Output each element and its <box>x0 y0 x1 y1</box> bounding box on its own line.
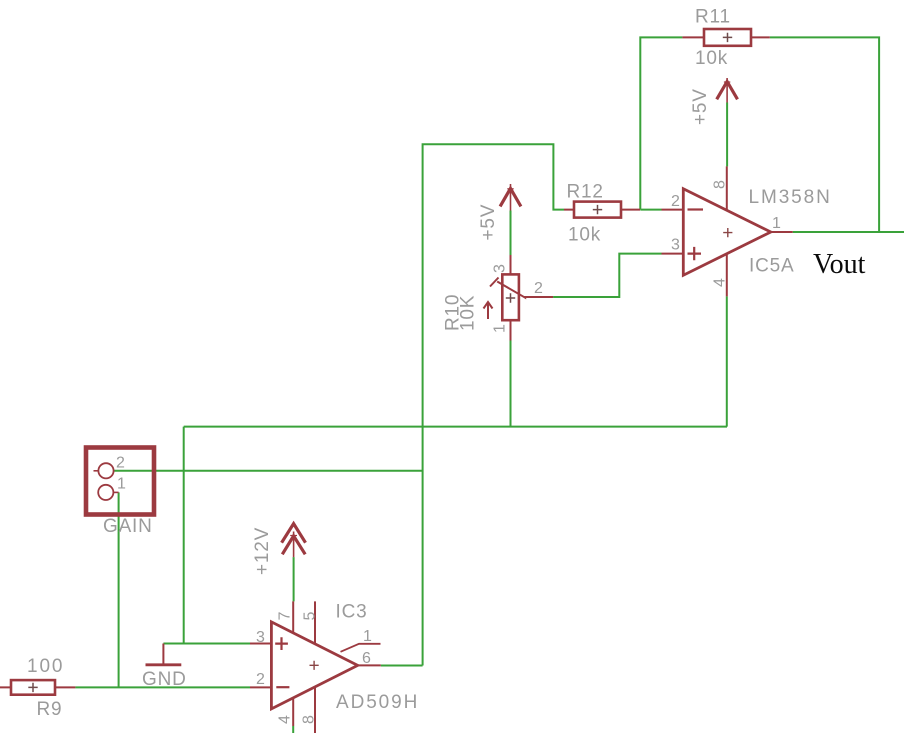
svg-text:10k: 10k <box>568 225 601 246</box>
svg-text:Vout: Vout <box>813 249 866 280</box>
svg-text:1: 1 <box>492 324 509 333</box>
svg-text:+12V: +12V <box>252 527 273 575</box>
svg-text:+5V: +5V <box>478 204 499 241</box>
svg-text:3: 3 <box>492 264 509 273</box>
svg-text:2: 2 <box>534 280 543 297</box>
svg-text:4: 4 <box>277 715 294 724</box>
svg-text:2: 2 <box>671 193 680 210</box>
svg-text:6: 6 <box>362 650 371 667</box>
svg-text:AD509H: AD509H <box>336 692 419 713</box>
svg-text:7: 7 <box>277 612 294 621</box>
svg-text:LM358N: LM358N <box>749 187 832 208</box>
svg-text:1: 1 <box>117 476 126 493</box>
svg-text:GND: GND <box>142 669 187 690</box>
svg-text:IC5A: IC5A <box>749 256 794 277</box>
svg-text:1: 1 <box>772 215 781 232</box>
svg-text:GAIN: GAIN <box>103 516 153 537</box>
svg-text:5: 5 <box>302 612 319 621</box>
svg-text:R11: R11 <box>695 7 731 28</box>
svg-text:1: 1 <box>363 628 372 645</box>
svg-text:8: 8 <box>712 180 729 189</box>
svg-text:2: 2 <box>116 455 125 472</box>
svg-text:100: 100 <box>27 656 64 677</box>
svg-text:10k: 10k <box>695 48 728 69</box>
svg-text:+5V: +5V <box>690 88 711 125</box>
svg-text:4: 4 <box>712 278 729 287</box>
svg-text:IC3: IC3 <box>336 602 368 623</box>
svg-text:3: 3 <box>671 237 680 254</box>
svg-text:R12: R12 <box>567 182 604 203</box>
svg-text:R9: R9 <box>37 699 63 720</box>
svg-text:10K: 10K <box>458 295 479 331</box>
svg-text:2: 2 <box>256 671 265 688</box>
svg-text:3: 3 <box>256 629 265 646</box>
svg-text:8: 8 <box>301 715 318 724</box>
